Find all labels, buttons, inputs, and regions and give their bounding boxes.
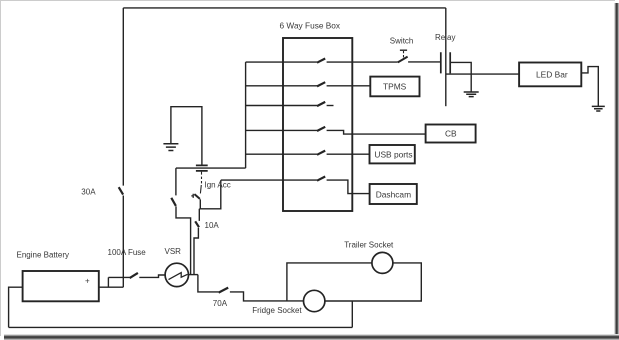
wire bus to row2 xyxy=(246,85,283,87)
wire switch S2 below xyxy=(199,199,201,209)
ground G2 xyxy=(464,92,479,97)
VSR internal contact symbol xyxy=(169,273,188,280)
fuse row3 spare stub xyxy=(327,105,334,107)
node battery positive tee xyxy=(107,277,109,287)
relay K1 center line xyxy=(445,8,447,106)
svg-text:30A: 30A xyxy=(81,188,96,197)
wire VSR output xyxy=(189,274,198,276)
svg-text:VSR: VSR xyxy=(165,247,182,256)
switch S1 actuator bar xyxy=(400,49,407,51)
svg-text:Relay: Relay xyxy=(435,33,455,42)
wire bus vertical xyxy=(245,62,247,168)
wire bus to row4 xyxy=(246,129,283,131)
wire 70A to fridge socket xyxy=(230,292,304,301)
wire bottom ground return rail xyxy=(9,326,353,328)
svg-text:6 Way Fuse Box: 6 Way Fuse Box xyxy=(280,21,341,31)
svg-text:Dashcam: Dashcam xyxy=(376,189,411,199)
wire to 100A fuse xyxy=(108,276,129,278)
relay K1 contact plates xyxy=(441,52,450,73)
block LED Bar xyxy=(519,63,581,87)
wire LED Bar to ground xyxy=(581,67,598,106)
trailer socket J1 xyxy=(372,252,393,273)
ground G3 xyxy=(592,106,605,111)
fuse row6 wire in xyxy=(283,179,317,181)
wire 10A branch upper xyxy=(198,209,200,221)
fuse row3 wire in xyxy=(283,105,317,107)
fuse row3 blade xyxy=(317,102,325,106)
wire 10A branch lower xyxy=(194,228,198,275)
fuse row1 wire in xyxy=(283,61,317,63)
block Dashcam xyxy=(370,184,417,204)
wire accessory node to dashcam riser xyxy=(199,180,221,209)
wire battery negative to bottom rail xyxy=(9,287,23,327)
block TPMS xyxy=(370,77,419,97)
fuse row2 blade xyxy=(317,82,325,86)
svg-text:TPMS: TPMS xyxy=(383,82,407,92)
svg-text:Fridge Socket: Fridge Socket xyxy=(252,306,302,315)
wire 100A fuse to VSR xyxy=(139,275,165,277)
fuse F-30A blade xyxy=(119,187,123,194)
fuse row1 blade xyxy=(317,59,325,63)
fuse row5 blade xyxy=(317,151,325,155)
block USB ports xyxy=(370,145,415,163)
switch S1 blade xyxy=(398,57,408,63)
wire bus to row3 xyxy=(246,105,283,107)
fuse row4 wire out to CB xyxy=(327,130,426,134)
fuse row2 wire in xyxy=(283,85,317,87)
wire 30A branch vertical lower xyxy=(122,196,124,288)
switch chain2 blade xyxy=(171,198,176,206)
wire trailer socket return xyxy=(325,263,421,301)
wire accessory bus feed xyxy=(176,167,246,169)
block CB xyxy=(426,125,476,143)
wire relay K2 coil to ground loop xyxy=(171,107,202,166)
wire trailer socket feed tee xyxy=(287,263,372,301)
wire relay to LED Bar xyxy=(446,73,519,75)
svg-text:70A: 70A xyxy=(213,299,228,308)
svg-text:USB ports: USB ports xyxy=(374,149,412,159)
wire relay K1 to ground xyxy=(450,62,471,91)
wire bus to row5 xyxy=(246,153,283,155)
ground G1 xyxy=(163,144,178,151)
svg-text:CB: CB xyxy=(445,129,457,139)
wire chain2 upper xyxy=(175,168,177,195)
fuse row6 wire out to dashcam xyxy=(327,180,370,194)
VSR U1 circle xyxy=(165,263,188,286)
fuse row5 wire out to USB ports xyxy=(327,153,370,155)
svg-text:LED Bar: LED Bar xyxy=(536,70,568,80)
fridge socket J2 xyxy=(304,290,325,311)
wire return riser to sockets xyxy=(351,301,353,327)
svg-text:Switch: Switch xyxy=(390,36,414,45)
svg-text:Trailer Socket: Trailer Socket xyxy=(344,241,394,250)
switch S2 actuator bar xyxy=(191,194,193,198)
fuse row2 wire out to TPMS xyxy=(327,85,371,87)
wire bus to row1 xyxy=(246,61,283,63)
wire dashcam row6 feed xyxy=(221,179,283,181)
wire 30A branch vertical upper xyxy=(122,8,124,186)
switch S2 Ign Acc blade xyxy=(194,194,200,199)
wire switch S1 to relay xyxy=(408,61,441,63)
svg-text:Ign Acc: Ign Acc xyxy=(205,180,231,189)
relay K2 contact plates xyxy=(196,165,208,171)
svg-text:Engine Battery: Engine Battery xyxy=(17,251,69,260)
wire 70A branch down xyxy=(198,275,219,292)
fuse row4 wire in xyxy=(283,129,317,131)
fuse row4 blade xyxy=(317,127,325,131)
wire battery positive xyxy=(99,286,124,288)
fuse row1 wire out to switch xyxy=(327,61,398,63)
switch S2 actuator link dashed xyxy=(200,172,201,194)
svg-text:100A Fuse: 100A Fuse xyxy=(108,248,147,257)
switch S1 actuator link dashed xyxy=(403,51,405,57)
battery B1 Engine Battery xyxy=(23,271,99,301)
fuse F-100A blade xyxy=(130,273,138,278)
fuse F-70A blade xyxy=(219,288,229,293)
svg-text:+: + xyxy=(85,276,90,285)
fuse row5 wire in xyxy=(283,153,317,155)
fuse box FB1 6 Way Fuse Box xyxy=(283,38,352,211)
fuse F-10A blade xyxy=(195,221,199,227)
wire top rail to relay xyxy=(123,7,446,9)
fuse row6 blade xyxy=(317,177,325,181)
svg-text:10A: 10A xyxy=(205,221,220,230)
wire chain2 lower xyxy=(176,206,191,274)
